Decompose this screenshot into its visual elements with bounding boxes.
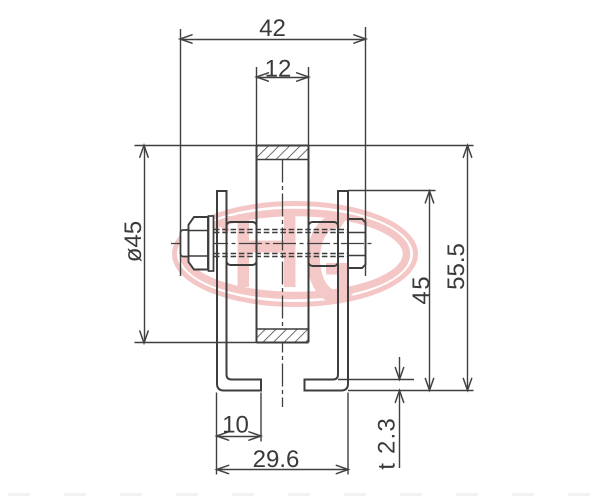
12 right extension: [308, 67, 310, 146]
dim line 12: [257, 77, 309, 79]
faint bottom artifact dashes: [8, 493, 603, 496]
dim line 55.5: [467, 146, 469, 391]
hidden thread root line upper: [214, 232, 348, 234]
text 29.6: [254, 450, 298, 467]
dim line dia45: [144, 146, 146, 344]
hidden thread root line lower: [214, 253, 348, 255]
text 10: [224, 416, 248, 433]
arrow 12 right: [297, 73, 309, 81]
hidden bolt thread lines (dashed): [214, 230, 348, 257]
bolt head facet line upper: [189, 230, 209, 232]
flange bottom extension (for 45 / 55.5): [348, 390, 474, 392]
bolt head facet line lower: [189, 255, 209, 257]
10 right extension: [260, 393, 262, 442]
dim line 29.6: [217, 469, 349, 471]
29.6 right extension: [347, 393, 349, 475]
watermark inner ellipse ring: [184, 213, 407, 296]
wheel rim bottom hatched section: [257, 329, 309, 343]
flange top extension (for t 2.3): [338, 379, 414, 381]
left spacer bushing: [227, 222, 257, 265]
nut: [348, 219, 366, 268]
arrow 10 right: [249, 432, 261, 440]
text 55.5: [447, 244, 464, 289]
arrow 29.6 right: [336, 465, 348, 473]
10 and 29.6 left extension: [216, 393, 218, 475]
text ø45: [124, 222, 141, 262]
arrow 12 left: [256, 73, 268, 81]
arrow 55.5 bottom: [463, 378, 471, 390]
watermark letter H: [221, 214, 295, 287]
arrow t2.3 upper (points down): [395, 368, 403, 380]
watermark HG logo: [175, 204, 416, 305]
bracket top extension (for 45 dim): [348, 190, 436, 192]
arrow t2.3 lower (points up): [395, 390, 403, 402]
arrow dia45 bottom: [140, 331, 148, 343]
dimension lines: [145, 40, 468, 470]
arrow 42 left: [180, 35, 192, 43]
hidden thread crest line lower: [214, 256, 348, 258]
axle rivet tip: [181, 230, 189, 257]
12 left extension: [256, 67, 258, 146]
centerline horizontal (bolt axis): [171, 243, 375, 245]
wheel bottom tangent extension line: [135, 342, 309, 344]
arrow 42 right: [354, 35, 366, 43]
arrowheads (open style): [140, 35, 472, 474]
arrow 55.5 top: [463, 145, 471, 157]
42 left extension: [180, 29, 182, 276]
bolt head: [189, 217, 209, 270]
dim line 45: [429, 191, 431, 391]
watermark letter G: [314, 221, 349, 296]
wheel left side: [256, 146, 258, 343]
arrow 45 top: [425, 191, 433, 203]
arrow 45 bottom: [425, 378, 433, 390]
dimension texts: [124, 19, 464, 469]
arrow 29.6 left: [217, 465, 229, 473]
watermark outer ellipse ring: [175, 204, 416, 305]
text 12: [266, 60, 290, 77]
extension lines (thin): [135, 27, 474, 475]
hidden thread crest line upper: [214, 229, 348, 231]
text 45: [412, 277, 429, 304]
wheel right side: [308, 146, 310, 343]
arrow 10 left: [217, 432, 229, 440]
dim line 42: [181, 39, 366, 41]
text 42: [260, 19, 285, 36]
dim line t2.3 upper: [399, 357, 401, 380]
centerline vertical (wheel axis): [282, 160, 284, 408]
washer: [209, 216, 214, 271]
nut facet line lower: [348, 255, 366, 257]
arrow dia45 top: [140, 145, 148, 157]
left bracket (L-profile): [217, 191, 261, 391]
right bracket (L-profile): [305, 191, 349, 391]
right spacer bushing: [309, 222, 339, 266]
42 right extension: [365, 27, 367, 276]
dim line 10: [217, 436, 262, 438]
text t 2.3: [378, 419, 395, 469]
nut facet line upper: [348, 232, 366, 234]
wheel top tangent extension line: [135, 145, 474, 147]
wheel rim top hatched section: [257, 146, 309, 160]
dim line t2.3 lower: [399, 391, 401, 469]
